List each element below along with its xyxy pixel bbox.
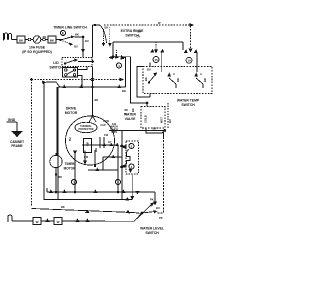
- water temp switch box: [143, 67, 212, 94]
- svg-text:10: 10: [187, 59, 191, 63]
- lid linkage left end: [31, 79, 60, 87]
- water valve label: [124, 113, 137, 122]
- svg-text:BK: BK: [75, 33, 79, 37]
- timer motor label: [64, 162, 77, 171]
- rail left drop: [112, 42, 114, 57]
- svg-text:COLD: COLD: [144, 115, 148, 123]
- terminal 4b: [129, 164, 134, 169]
- valve bottom wire: [146, 128, 166, 133]
- svg-text:BK: BK: [95, 98, 99, 102]
- selector contacts above circle 4: [110, 50, 124, 59]
- lid switch box: [62, 58, 92, 67]
- GND label: [7, 118, 17, 122]
- lid switch blade: [64, 59, 92, 64]
- svg-text:PROTECTOR: PROTECTOR: [79, 128, 94, 131]
- terminal T3: [115, 179, 120, 184]
- water temp switch label: [177, 99, 200, 108]
- svg-text:BU: BU: [69, 137, 72, 141]
- tiny label W: [125, 109, 129, 116]
- terminal 15: [153, 57, 159, 63]
- temp switch contact 3: [195, 72, 207, 88]
- connector box 2: [48, 36, 60, 43]
- svg-text:BK: BK: [105, 26, 109, 30]
- power cord plug: [4, 33, 18, 41]
- timer motor drop: [56, 87, 58, 156]
- wire switch to corner: [75, 36, 89, 57]
- svg-text:A: A: [173, 72, 175, 76]
- contact arrow: [154, 202, 157, 205]
- temp switch contact 2: [168, 72, 180, 88]
- svg-text:BK: BK: [19, 39, 24, 43]
- connector box 1: [17, 36, 33, 43]
- svg-text:A: A: [200, 72, 202, 76]
- svg-text:3: 3: [117, 180, 119, 184]
- svg-text:BK: BK: [144, 77, 148, 81]
- neutral box 1: [33, 218, 54, 225]
- hot side dashed drop: [167, 103, 169, 128]
- svg-text:E: E: [62, 31, 64, 35]
- dashed drop right: [190, 26, 192, 49]
- svg-text:10A FUSE: 10A FUSE: [29, 46, 46, 50]
- right selector arrows: [185, 49, 198, 53]
- node E: [60, 30, 65, 35]
- node at 113,57: [112, 56, 114, 58]
- svg-text:DRIVE: DRIVE: [66, 107, 77, 111]
- motor cap block: [84, 120, 118, 159]
- lid switch label: [49, 61, 63, 70]
- svg-text:BK: BK: [125, 109, 129, 112]
- bottom bus: [47, 188, 155, 194]
- box drop wire: [122, 174, 134, 200]
- svg-text:BR: BR: [203, 78, 207, 82]
- motor right wire: [109, 127, 164, 131]
- terminal 4: [116, 63, 121, 68]
- ground symbol: [12, 122, 23, 137]
- svg-text:BU: BU: [168, 119, 172, 123]
- svg-text:BU: BU: [74, 45, 78, 49]
- svg-text:4: 4: [118, 64, 120, 68]
- motor feed: [92, 87, 99, 117]
- svg-text:WATER TEMP: WATER TEMP: [177, 99, 200, 103]
- svg-text:BK: BK: [59, 176, 63, 179]
- svg-text:BK: BK: [43, 35, 47, 39]
- wire labels BR GY: [137, 30, 142, 39]
- svg-text:W: W: [36, 220, 39, 224]
- motor internal wires: [82, 144, 122, 192]
- svg-text:TIMER: TIMER: [65, 162, 76, 166]
- temp box to valve wire: [149, 94, 151, 98]
- svg-text:BU: BU: [85, 39, 89, 43]
- terminal T1: [71, 179, 76, 184]
- water valve box: [141, 107, 165, 129]
- svg-text:BK: BK: [153, 127, 157, 131]
- left lower rail: [32, 209, 143, 214]
- motor winding label: [69, 137, 92, 152]
- svg-text:4: 4: [131, 165, 133, 169]
- extra rinse switch blade: [100, 25, 112, 46]
- drive motor circle: [66, 116, 115, 165]
- svg-text:W: W: [158, 21, 161, 25]
- terminal 2: [129, 143, 134, 148]
- motor lower contacts: [74, 150, 118, 192]
- timer motor: [50, 153, 63, 192]
- svg-text:LID: LID: [53, 61, 59, 65]
- svg-text:PK: PK: [150, 198, 154, 202]
- svg-text:W: W: [57, 220, 60, 224]
- riser top to rail: [93, 25, 100, 58]
- node dot top: [94, 24, 96, 26]
- svg-text:GY: GY: [137, 35, 141, 39]
- fuse label: [22, 46, 52, 54]
- temp switch contact 1: [144, 73, 157, 83]
- top dashed rail: [104, 24, 191, 26]
- neutral box 2: [54, 218, 134, 225]
- timer line switch: [60, 33, 79, 49]
- cabinet frame label: [10, 140, 24, 148]
- node on riser: [92, 61, 94, 63]
- lid switch linkage dashes: [32, 78, 127, 93]
- rail end arrow: [190, 24, 193, 26]
- svg-text:BK: BK: [61, 205, 65, 209]
- main riser down: [92, 67, 94, 88]
- svg-text:BK: BK: [50, 39, 55, 43]
- lid switch body: [63, 67, 88, 88]
- svg-text:FRAME: FRAME: [11, 144, 22, 148]
- temp selector blade left: [151, 42, 164, 53]
- svg-text:CAP: CAP: [100, 124, 106, 127]
- svg-text:CCW: CCW: [103, 120, 110, 123]
- svg-text:2: 2: [131, 144, 133, 148]
- svg-text:MOTOR: MOTOR: [64, 167, 77, 171]
- svg-text:BU: BU: [147, 68, 151, 72]
- water level switch: [134, 198, 163, 222]
- svg-text:TIMER LINE SWITCH: TIMER LINE SWITCH: [53, 26, 87, 30]
- svg-text:WH: WH: [95, 148, 98, 152]
- svg-text:HOT: HOT: [160, 117, 164, 123]
- motor switch box: [120, 141, 139, 174]
- main outline box: [58, 87, 122, 200]
- svg-text:CW: CW: [104, 134, 109, 137]
- svg-text:VALVE: VALVE: [125, 117, 137, 121]
- drive motor label: [65, 107, 78, 116]
- thermal protector: [75, 116, 97, 133]
- svg-text:SPIN: SPIN: [111, 131, 117, 134]
- bus corner to level switch: [154, 192, 156, 203]
- svg-text:BR: BR: [176, 78, 180, 82]
- svg-text:15: 15: [154, 58, 158, 62]
- svg-text:SWITCH: SWITCH: [181, 103, 195, 107]
- svg-text:BK: BK: [131, 108, 135, 112]
- svg-text:PK: PK: [159, 216, 163, 220]
- svg-text:(IF SO EQUIPPED): (IF SO EQUIPPED): [22, 50, 52, 54]
- left dashed drop: [31, 79, 33, 207]
- neutral hook: [8, 215, 33, 222]
- svg-text:MOTOR: MOTOR: [65, 111, 78, 115]
- wire down from left selector: [161, 53, 163, 73]
- svg-text:BU: BU: [156, 206, 160, 210]
- rail right drop: [182, 42, 184, 50]
- lid switch lower wire: [58, 86, 126, 88]
- terminal 10: [186, 57, 192, 63]
- left solid drop: [44, 82, 58, 200]
- svg-text:SWITCH: SWITCH: [49, 66, 63, 70]
- extra rinse switch label: [121, 29, 144, 38]
- solid rail y42: [113, 41, 183, 43]
- wire from selector down right: [123, 58, 126, 88]
- water level switch label: [140, 227, 164, 236]
- svg-text:BR: BR: [138, 30, 142, 34]
- wire down right selector: [196, 53, 198, 73]
- svg-text:BK: BK: [122, 89, 126, 93]
- fuse F1 (10A): [33, 35, 48, 43]
- svg-text:GND: GND: [8, 118, 16, 122]
- svg-text:SWITCH: SWITCH: [145, 231, 159, 235]
- neutral to pivot: [134, 213, 142, 221]
- svg-text:WATER LEVEL: WATER LEVEL: [140, 227, 164, 231]
- water valve feed riser: [113, 57, 150, 112]
- valve to level switch riser: [163, 132, 165, 138]
